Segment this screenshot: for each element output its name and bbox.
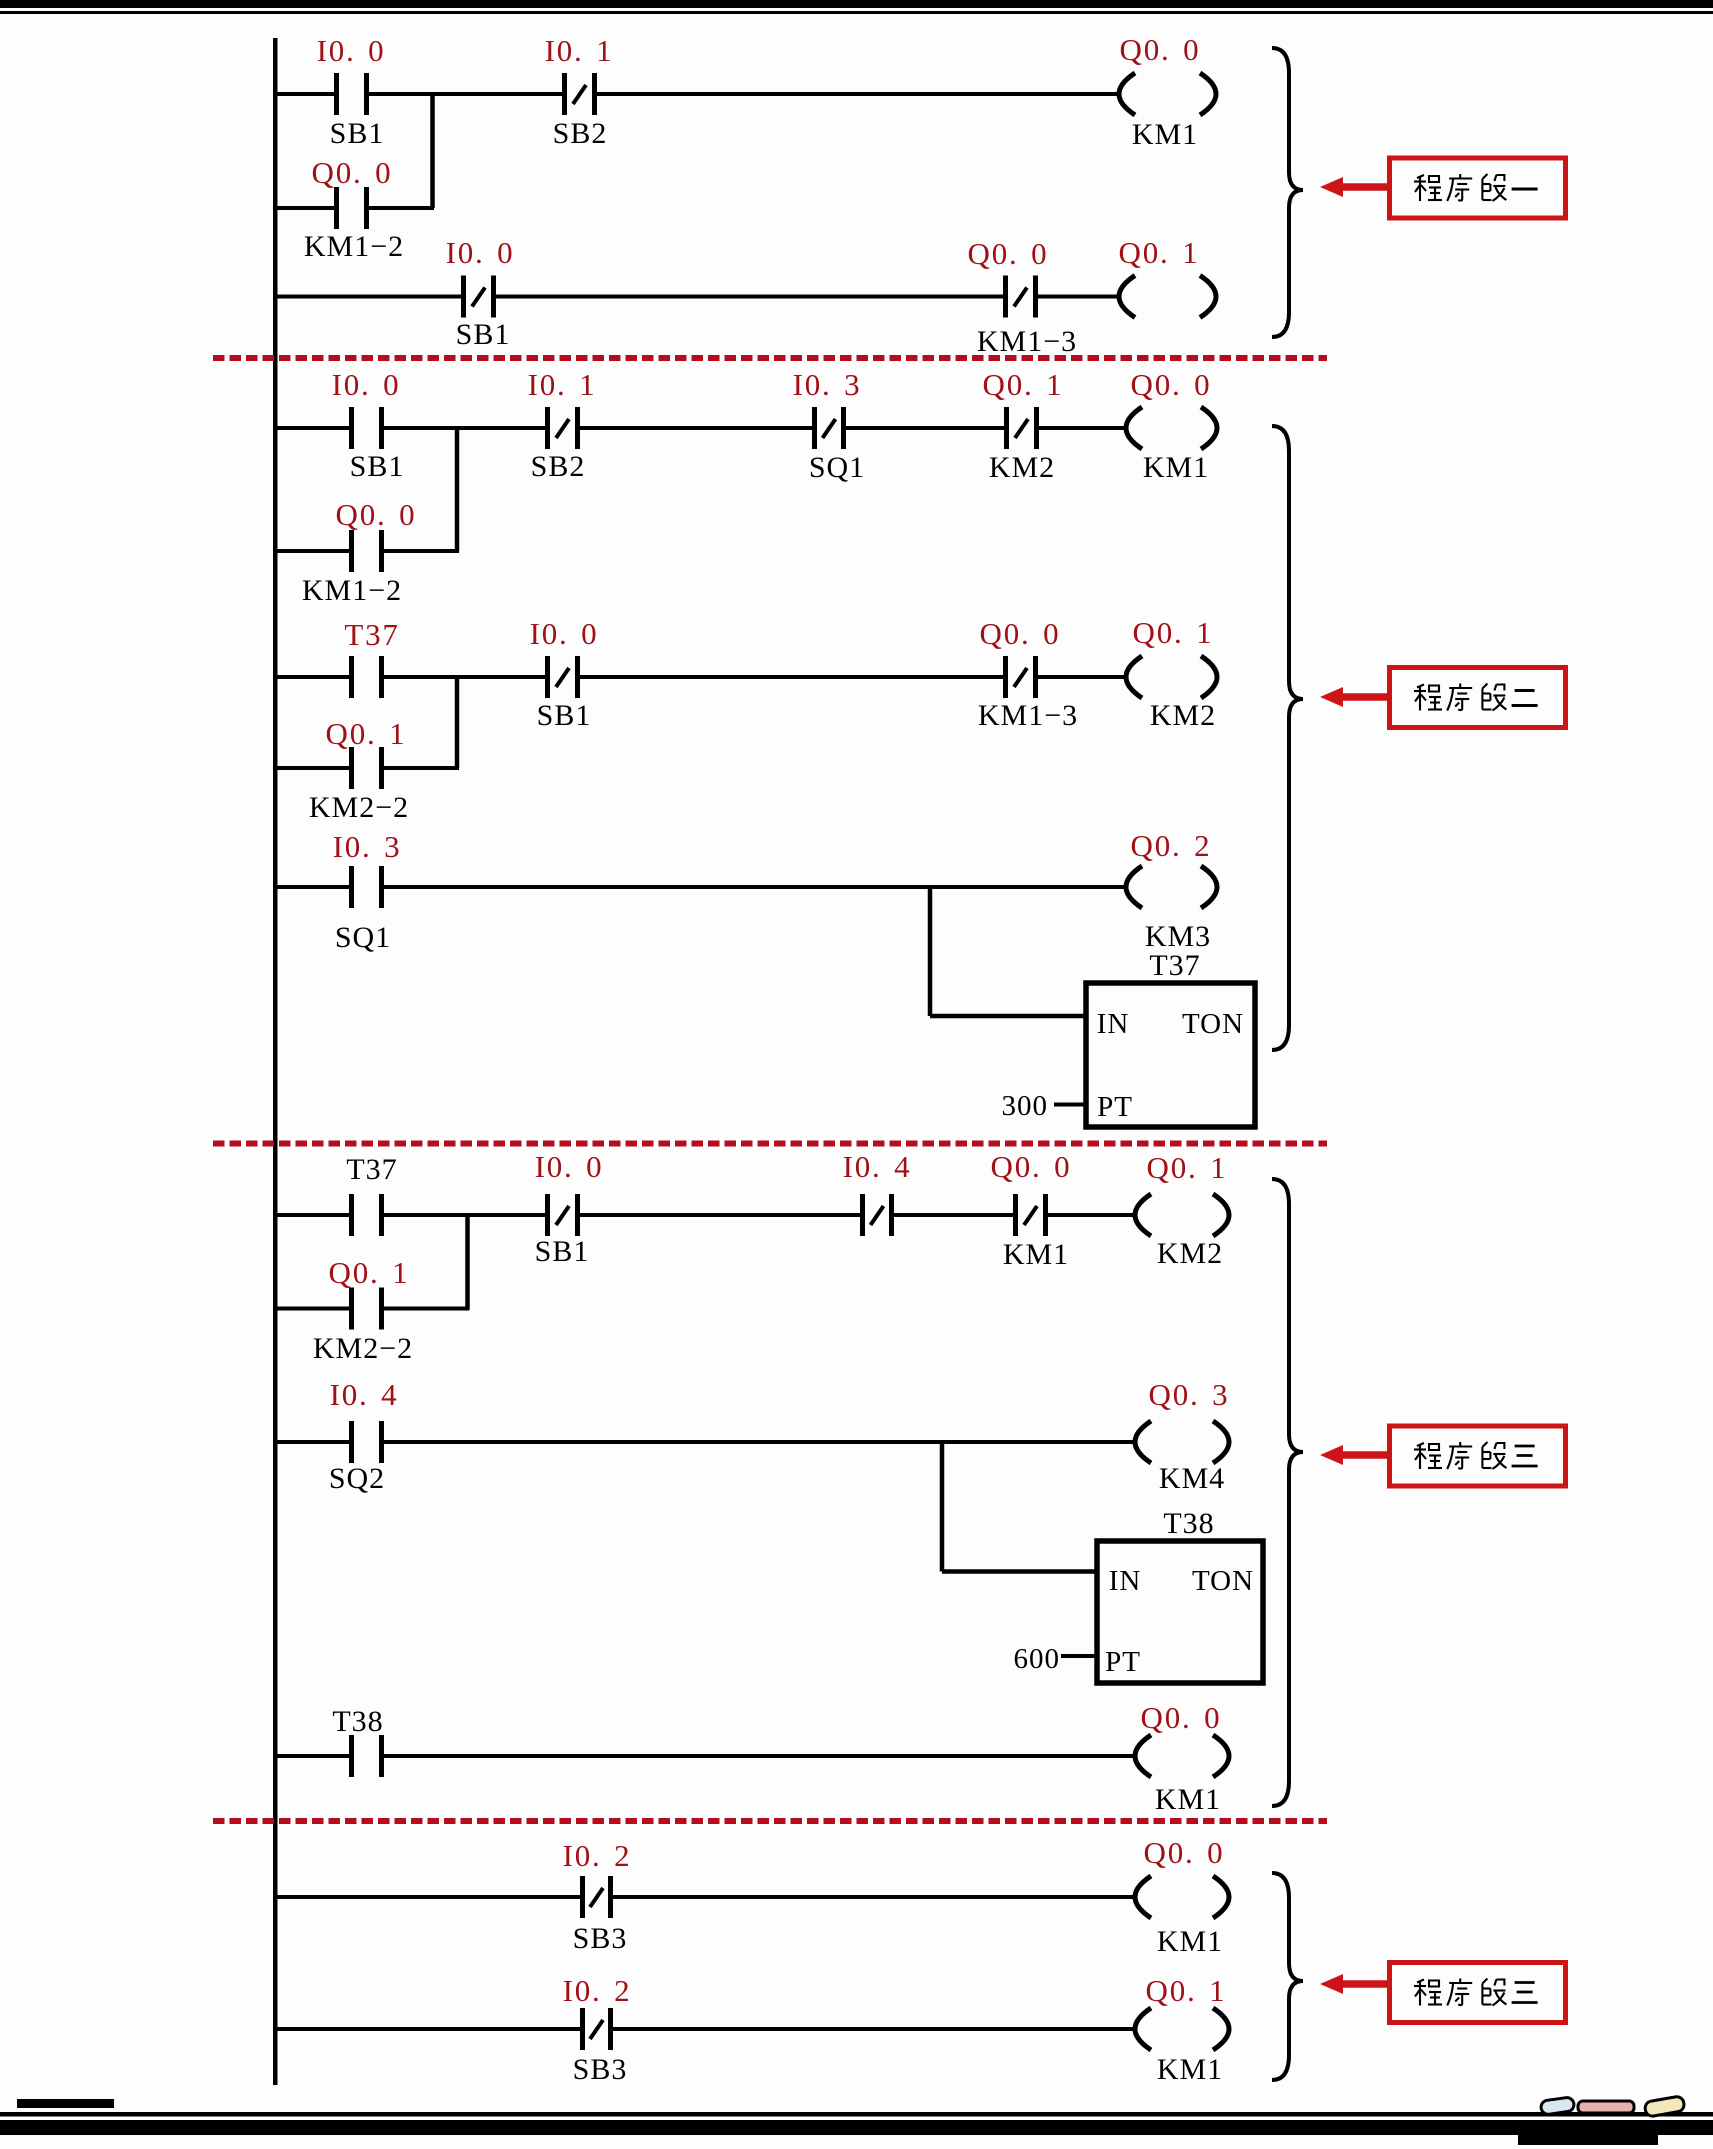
svg-text:PT: PT bbox=[1097, 1091, 1133, 1123]
svg-text:SB2: SB2 bbox=[553, 117, 608, 150]
svg-text:KM2−2: KM2−2 bbox=[313, 1332, 413, 1365]
svg-text:Q0. 1: Q0. 1 bbox=[1147, 1150, 1228, 1185]
svg-text:T38: T38 bbox=[1163, 1507, 1214, 1540]
svg-text:SQ1: SQ1 bbox=[809, 451, 865, 484]
svg-text:KM2: KM2 bbox=[1150, 699, 1216, 732]
svg-text:I0. 3: I0. 3 bbox=[333, 829, 402, 864]
svg-text:SB1: SB1 bbox=[330, 117, 385, 150]
svg-text:I0. 0: I0. 0 bbox=[446, 235, 515, 270]
svg-text:SB3: SB3 bbox=[573, 2053, 628, 2086]
svg-text:KM4: KM4 bbox=[1159, 1462, 1225, 1495]
svg-text:TON: TON bbox=[1192, 1565, 1254, 1597]
svg-text:SB1: SB1 bbox=[535, 1235, 590, 1268]
svg-text:Q0. 1: Q0. 1 bbox=[1119, 235, 1200, 270]
svg-text:KM1−2: KM1−2 bbox=[304, 230, 404, 263]
svg-text:600: 600 bbox=[1014, 1643, 1061, 1675]
svg-text:Q0. 1: Q0. 1 bbox=[1133, 615, 1214, 650]
svg-text:KM1: KM1 bbox=[1157, 2053, 1223, 2086]
svg-text:T37: T37 bbox=[346, 1153, 397, 1186]
svg-text:KM1: KM1 bbox=[1157, 1925, 1223, 1958]
svg-text:I0. 3: I0. 3 bbox=[793, 367, 862, 402]
svg-text:KM2: KM2 bbox=[1157, 1237, 1223, 1270]
svg-text:Q0. 0: Q0. 0 bbox=[1141, 1700, 1222, 1735]
svg-text:IN: IN bbox=[1109, 1565, 1142, 1597]
svg-text:KM1: KM1 bbox=[1003, 1238, 1069, 1271]
svg-text:I0. 1: I0. 1 bbox=[528, 367, 597, 402]
svg-text:Q0. 0: Q0. 0 bbox=[1120, 32, 1201, 67]
svg-text:Q0. 0: Q0. 0 bbox=[968, 236, 1049, 271]
svg-text:SQ1: SQ1 bbox=[335, 921, 391, 954]
svg-text:I0. 4: I0. 4 bbox=[330, 1377, 399, 1412]
svg-text:I0. 0: I0. 0 bbox=[530, 616, 599, 651]
svg-text:300: 300 bbox=[1002, 1090, 1049, 1122]
svg-text:SB1: SB1 bbox=[350, 450, 405, 483]
svg-text:Q0. 1: Q0. 1 bbox=[1146, 1973, 1227, 2008]
svg-text:Q0. 0: Q0. 0 bbox=[336, 497, 417, 532]
svg-text:SB1: SB1 bbox=[456, 318, 511, 351]
svg-text:IN: IN bbox=[1097, 1008, 1130, 1040]
svg-text:T38: T38 bbox=[332, 1705, 383, 1738]
svg-text:SB1: SB1 bbox=[537, 699, 592, 732]
svg-text:Q0. 2: Q0. 2 bbox=[1131, 828, 1212, 863]
svg-text:I0. 4: I0. 4 bbox=[843, 1149, 912, 1184]
svg-text:SB3: SB3 bbox=[573, 1922, 628, 1955]
svg-text:SQ2: SQ2 bbox=[329, 1462, 385, 1495]
svg-text:I0. 2: I0. 2 bbox=[563, 1838, 632, 1873]
svg-text:KM2: KM2 bbox=[989, 451, 1055, 484]
svg-text:Q0. 1: Q0. 1 bbox=[983, 367, 1064, 402]
svg-text:T37: T37 bbox=[1149, 949, 1200, 982]
svg-text:Q0. 0: Q0. 0 bbox=[1144, 1835, 1225, 1870]
svg-text:KM1−2: KM1−2 bbox=[302, 574, 402, 607]
svg-text:I0. 0: I0. 0 bbox=[535, 1149, 604, 1184]
svg-text:Q0. 3: Q0. 3 bbox=[1149, 1377, 1230, 1412]
svg-text:KM2−2: KM2−2 bbox=[309, 791, 409, 824]
svg-text:Q0. 0: Q0. 0 bbox=[980, 616, 1061, 651]
svg-text:Q0. 0: Q0. 0 bbox=[991, 1149, 1072, 1184]
svg-text:I0. 1: I0. 1 bbox=[545, 33, 614, 68]
svg-text:Q0. 1: Q0. 1 bbox=[326, 716, 407, 751]
svg-text:PT: PT bbox=[1105, 1646, 1141, 1678]
svg-text:Q0. 0: Q0. 0 bbox=[312, 155, 393, 190]
svg-text:KM1−3: KM1−3 bbox=[978, 699, 1078, 732]
svg-text:Q0. 0: Q0. 0 bbox=[1131, 367, 1212, 402]
svg-text:T37: T37 bbox=[344, 617, 399, 652]
svg-text:Q0. 1: Q0. 1 bbox=[329, 1255, 410, 1290]
svg-text:TON: TON bbox=[1182, 1008, 1244, 1040]
svg-text:I0. 0: I0. 0 bbox=[332, 367, 401, 402]
svg-text:KM1: KM1 bbox=[1155, 1783, 1221, 1816]
svg-text:I0. 0: I0. 0 bbox=[317, 33, 386, 68]
svg-text:KM1: KM1 bbox=[1143, 451, 1209, 484]
svg-text:I0. 2: I0. 2 bbox=[563, 1973, 632, 2008]
svg-text:KM1: KM1 bbox=[1132, 118, 1198, 151]
svg-text:KM1−3: KM1−3 bbox=[977, 325, 1077, 358]
svg-text:SB2: SB2 bbox=[531, 450, 586, 483]
